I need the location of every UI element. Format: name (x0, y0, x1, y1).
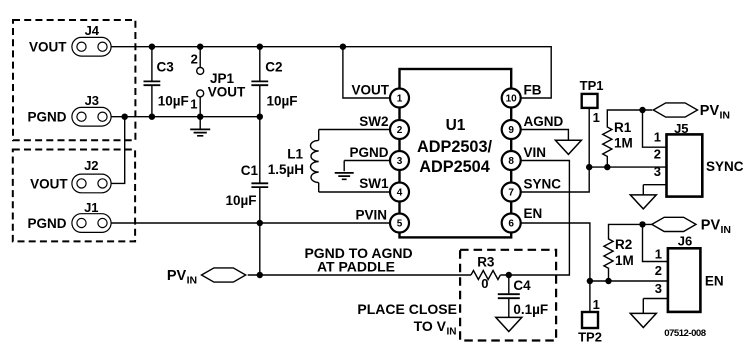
svg-text:1: 1 (654, 130, 661, 145)
svg-text:SW1: SW1 (359, 176, 389, 191)
svg-text:7: 7 (508, 188, 514, 199)
svg-text:IN: IN (447, 326, 457, 337)
svg-text:0: 0 (481, 276, 488, 291)
svg-text:VOUT: VOUT (29, 40, 67, 55)
svg-text:TP1: TP1 (580, 78, 604, 93)
svg-text:4: 4 (397, 188, 403, 199)
svg-text:2: 2 (654, 147, 661, 162)
svg-text:2: 2 (191, 52, 198, 67)
svg-text:PV: PV (167, 268, 187, 284)
svg-text:TP2: TP2 (578, 329, 602, 344)
svg-text:J6: J6 (678, 233, 692, 248)
svg-text:IN: IN (721, 224, 732, 236)
svg-text:TO V: TO V (414, 318, 447, 334)
svg-text:1.5µH: 1.5µH (268, 162, 304, 177)
svg-text:J4: J4 (85, 23, 100, 38)
svg-text:ADP2504: ADP2504 (419, 158, 490, 176)
svg-text:J3: J3 (85, 93, 99, 108)
svg-text:ADP2503/: ADP2503/ (417, 138, 493, 156)
svg-text:10µF: 10µF (158, 94, 189, 109)
svg-text:3: 3 (397, 156, 403, 167)
svg-text:R3: R3 (477, 255, 495, 270)
svg-text:J5: J5 (674, 121, 688, 136)
svg-text:AT PADDLE: AT PADDLE (317, 258, 395, 274)
svg-text:PGND: PGND (27, 216, 66, 231)
svg-text:0.1µF: 0.1µF (513, 302, 548, 317)
svg-text:07512-008: 07512-008 (664, 328, 707, 339)
svg-text:1M: 1M (615, 253, 634, 268)
svg-text:2: 2 (655, 263, 662, 278)
svg-text:C2: C2 (265, 60, 282, 75)
svg-text:8: 8 (508, 156, 514, 167)
svg-text:J1: J1 (84, 200, 98, 215)
svg-text:IN: IN (720, 110, 731, 122)
svg-text:AGND: AGND (524, 114, 564, 129)
svg-text:L1: L1 (287, 147, 303, 162)
svg-text:PVIN: PVIN (355, 207, 387, 222)
svg-text:C3: C3 (157, 60, 175, 75)
svg-text:VOUT: VOUT (351, 82, 389, 97)
svg-text:C1: C1 (241, 163, 259, 178)
svg-text:EN: EN (705, 274, 724, 289)
svg-text:9: 9 (508, 125, 514, 136)
svg-text:EN: EN (524, 206, 543, 221)
svg-text:1: 1 (190, 96, 197, 111)
svg-text:1: 1 (397, 94, 403, 105)
svg-text:5: 5 (397, 219, 403, 230)
svg-text:10µF: 10µF (225, 193, 256, 208)
svg-text:FB: FB (524, 82, 542, 97)
svg-text:SYNC: SYNC (524, 176, 562, 191)
svg-text:6: 6 (508, 219, 514, 230)
svg-text:VOUT: VOUT (208, 84, 246, 99)
svg-text:1: 1 (593, 110, 600, 125)
svg-text:J2: J2 (84, 158, 98, 173)
svg-text:10: 10 (506, 94, 518, 105)
svg-text:U1: U1 (446, 117, 466, 134)
svg-text:PGND: PGND (349, 145, 388, 160)
svg-text:VIN: VIN (524, 145, 547, 160)
svg-text:PLACE CLOSE: PLACE CLOSE (357, 301, 457, 317)
svg-text:SW2: SW2 (359, 114, 388, 129)
svg-text:1: 1 (655, 246, 662, 261)
svg-text:R1: R1 (614, 120, 632, 135)
svg-text:VOUT: VOUT (30, 176, 68, 191)
svg-text:1M: 1M (614, 135, 633, 150)
svg-text:3: 3 (655, 281, 662, 296)
svg-text:3: 3 (654, 164, 661, 179)
svg-text:2: 2 (397, 125, 403, 136)
svg-text:PV: PV (700, 103, 720, 119)
svg-text:10µF: 10µF (267, 94, 298, 109)
svg-text:IN: IN (187, 274, 198, 286)
svg-text:R2: R2 (615, 237, 632, 252)
svg-text:C4: C4 (513, 278, 531, 293)
svg-text:PV: PV (701, 218, 721, 234)
svg-text:PGND: PGND (27, 110, 66, 125)
svg-text:SYNC: SYNC (706, 159, 744, 174)
svg-text:1: 1 (593, 297, 600, 312)
